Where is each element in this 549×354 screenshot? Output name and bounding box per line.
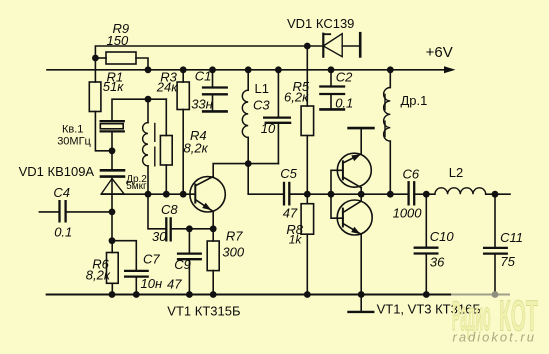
svg-text:Др.1: Др.1 xyxy=(401,93,428,108)
svg-text:150: 150 xyxy=(107,33,129,48)
svg-text:Кв.1: Кв.1 xyxy=(62,124,83,136)
svg-text:51к: 51к xyxy=(103,79,124,94)
svg-text:radiokot.ru: radiokot.ru xyxy=(453,330,536,345)
svg-text:C8: C8 xyxy=(161,202,178,217)
svg-text:300: 300 xyxy=(222,244,244,259)
svg-text:C2: C2 xyxy=(336,70,353,85)
svg-text:24к: 24к xyxy=(156,80,178,95)
svg-text:10н: 10н xyxy=(141,276,163,291)
svg-text:10: 10 xyxy=(261,121,276,136)
svg-text:+6V: +6V xyxy=(426,44,453,61)
svg-text:0.1: 0.1 xyxy=(54,225,72,240)
svg-text:33н: 33н xyxy=(191,97,213,112)
svg-text:C6: C6 xyxy=(403,167,420,182)
svg-text:5мкг: 5мкг xyxy=(126,181,147,192)
svg-text:C5: C5 xyxy=(280,166,297,181)
svg-text:8,2к: 8,2к xyxy=(86,268,111,283)
svg-text:R7: R7 xyxy=(226,228,243,243)
svg-text:1k: 1k xyxy=(289,233,303,247)
svg-text:L1: L1 xyxy=(255,81,269,96)
svg-text:VT1 КТ315Б: VT1 КТ315Б xyxy=(167,303,240,318)
svg-text:75: 75 xyxy=(500,254,515,269)
svg-text:30: 30 xyxy=(152,229,167,244)
svg-text:L2: L2 xyxy=(449,165,463,180)
svg-text:8,2к: 8,2к xyxy=(184,140,209,155)
svg-text:C4: C4 xyxy=(53,185,70,200)
svg-text:47: 47 xyxy=(283,206,298,221)
svg-text:C3: C3 xyxy=(253,98,270,113)
svg-text:1000: 1000 xyxy=(393,206,423,221)
svg-text:C7: C7 xyxy=(143,252,160,267)
svg-text:0.1: 0.1 xyxy=(335,96,353,111)
svg-text:C10: C10 xyxy=(430,229,455,244)
svg-text:C1: C1 xyxy=(195,69,212,84)
svg-text:30МГц: 30МГц xyxy=(57,136,91,148)
svg-text:VD1 КВ109А: VD1 КВ109А xyxy=(19,164,95,179)
svg-text:36: 36 xyxy=(430,254,445,269)
svg-text:47: 47 xyxy=(167,277,182,292)
svg-text:VD1 КС139: VD1 КС139 xyxy=(287,16,354,31)
svg-text:C9: C9 xyxy=(174,257,191,272)
svg-text:6,2к: 6,2к xyxy=(284,90,309,105)
svg-text:C11: C11 xyxy=(500,230,523,245)
